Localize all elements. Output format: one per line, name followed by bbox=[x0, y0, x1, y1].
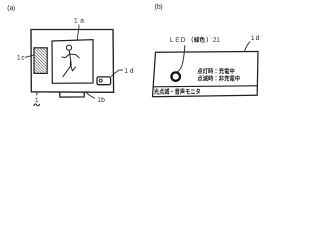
leader line 1a bbox=[78, 25, 79, 40]
LED ring symbol 21 bbox=[171, 72, 180, 81]
header numeral 21 bbox=[213, 37, 219, 41]
label 1b bbox=[98, 97, 105, 102]
indicator LED circle bbox=[99, 79, 102, 82]
label (a) bbox=[8, 5, 15, 11]
header kanji (green color) bbox=[192, 37, 208, 43]
text line2: blink=not charging bbox=[198, 75, 240, 81]
label (b) bbox=[155, 4, 162, 10]
separator line in info box bbox=[153, 86, 257, 87]
leader line from LED text to ring bbox=[177, 45, 185, 72]
person figure: head bbox=[66, 45, 71, 50]
leader line 1b bbox=[86, 92, 95, 98]
label 1d (left) bbox=[125, 68, 133, 73]
hatched element 1c bbox=[34, 48, 47, 74]
label 1a bbox=[75, 18, 84, 23]
info box (b) bbox=[153, 52, 259, 97]
header text LED bbox=[171, 37, 186, 42]
leader line 1c bbox=[25, 55, 34, 58]
leader line 1d (right) bbox=[245, 42, 251, 52]
screen 1a (display area) bbox=[52, 40, 93, 84]
stand 1b bbox=[60, 92, 86, 97]
indicator box 1d on device bbox=[97, 77, 111, 85]
tilde under label 1 bbox=[34, 104, 40, 106]
leader tick for label 1 bbox=[35, 92, 38, 95]
label 1 bbox=[35, 98, 38, 103]
label 1d (right) bbox=[251, 35, 258, 40]
text line3: light blink / audio monitor bbox=[154, 88, 200, 94]
text line1: lit=charging bbox=[198, 68, 235, 74]
leader line 1d (left) bbox=[111, 70, 123, 77]
person figure: body and limbs bbox=[62, 51, 79, 77]
device body 1 (monitor) bbox=[31, 30, 114, 93]
label 1c bbox=[17, 55, 24, 60]
